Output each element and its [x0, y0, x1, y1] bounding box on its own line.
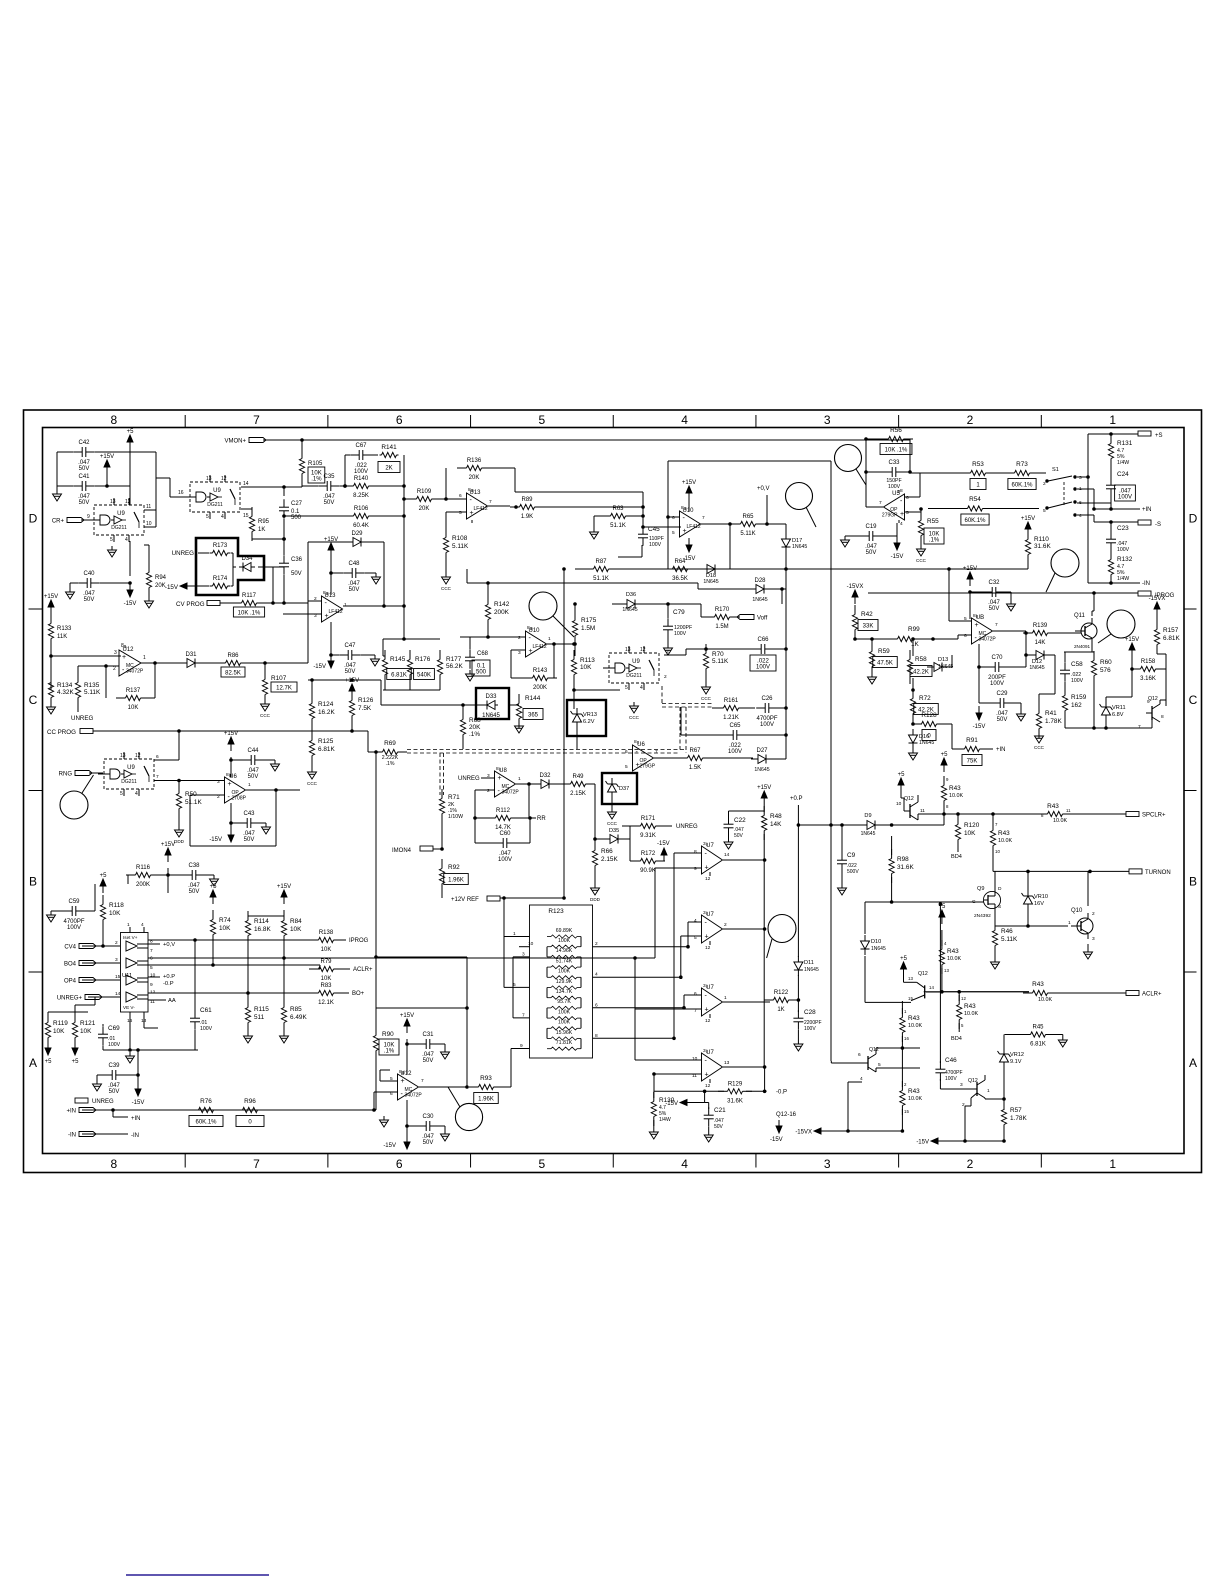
svg-text:4: 4 — [595, 972, 598, 978]
label R91 — [966, 737, 978, 744]
wire x — [380, 1069, 390, 1071]
svg-text:5: 5 — [110, 537, 113, 543]
svg-text:2.15K: 2.15K — [570, 791, 586, 797]
R123 link — [580, 1018, 582, 1028]
transistor Q11 — [1075, 618, 1097, 644]
resistor R94 — [146, 563, 166, 597]
wire collector to VR12 — [985, 1098, 1004, 1100]
svg-text:100V: 100V — [354, 469, 368, 475]
svg-text:2: 2 — [967, 1157, 974, 1171]
svg-text:R89: R89 — [521, 497, 533, 503]
node junction — [865, 471, 868, 474]
label D18 — [703, 573, 718, 585]
wire x — [1039, 693, 1055, 695]
resistor R170 — [705, 607, 739, 630]
wire x — [630, 860, 637, 862]
wire C41 right — [95, 485, 130, 487]
svg-text:Q12: Q12 — [904, 796, 914, 802]
wire x — [797, 975, 799, 1000]
wire pin10 — [144, 526, 156, 528]
R123 pin 7 stub — [513, 1012, 530, 1018]
resistor R110 — [1025, 530, 1030, 564]
svg-text:3: 3 — [518, 650, 521, 656]
wire R121 top — [74, 1005, 76, 1019]
wire VR11 top — [1105, 697, 1107, 702]
wire mid vertical x467 — [466, 957, 468, 1086]
svg-text:-: - — [705, 851, 708, 858]
label R71 vals — [448, 802, 463, 820]
node junction — [830, 824, 833, 827]
wire left vert — [1131, 657, 1133, 697]
border inner frame — [43, 428, 1185, 1154]
svg-text:1N645: 1N645 — [622, 607, 637, 613]
svg-text:LF412: LF412 — [533, 644, 547, 650]
svg-text:500: 500 — [476, 670, 487, 676]
node junction — [847, 1130, 850, 1133]
capacitor C45 — [638, 526, 648, 546]
node junction — [275, 789, 278, 792]
svg-text:DG211: DG211 — [207, 502, 223, 508]
pin marks R43c — [1041, 808, 1071, 818]
label 51.74K — [556, 958, 573, 964]
svg-text:50V: 50V — [79, 466, 90, 472]
wire U7a pin8 vertical — [673, 853, 675, 1038]
wire Q10 emitter — [1087, 944, 1089, 948]
svg-text:4: 4 — [681, 413, 688, 427]
grid label C left — [29, 693, 38, 707]
svg-text:+: + — [498, 775, 502, 782]
wire rail pin6 — [148, 957, 655, 959]
wire pin6 stub — [905, 496, 920, 498]
svg-text:8: 8 — [399, 1069, 402, 1075]
R123 pin 10 stub — [519, 941, 534, 947]
ground C38 — [210, 875, 219, 886]
switch S1 link dashed — [1063, 482, 1065, 505]
wire pin11 wire — [654, 1073, 701, 1075]
svg-text:31.6K: 31.6K — [897, 864, 914, 871]
svg-text:50V: 50V — [79, 500, 90, 506]
node junction — [969, 591, 972, 594]
IC U11 pins top — [127, 922, 144, 933]
svg-text:R43: R43 — [908, 1015, 920, 1022]
wire x — [719, 568, 730, 570]
resistor R89 — [510, 497, 544, 520]
svg-text:3: 3 — [114, 650, 117, 656]
node junction — [785, 648, 788, 651]
bold box D33 — [476, 688, 509, 719]
svg-text:U12: U12 — [122, 647, 134, 653]
node junction — [283, 538, 286, 541]
svg-text:5: 5 — [906, 510, 909, 516]
R123 pin 6 stub — [593, 1002, 685, 1008]
grid tick left — [29, 790, 43, 792]
svg-text:D11: D11 — [804, 960, 814, 966]
R123 link — [546, 947, 548, 957]
svg-text:1: 1 — [127, 922, 130, 928]
capacitor C67 — [350, 443, 372, 475]
label C22 vals — [734, 827, 744, 839]
wire IMON4 wire — [433, 848, 442, 850]
wire x — [97, 1074, 105, 1076]
resistor R106 — [344, 506, 378, 529]
svg-text:1N645: 1N645 — [1029, 665, 1044, 671]
capacitor C26 — [756, 696, 778, 728]
label -O.P out — [163, 981, 174, 987]
wire D34 out — [258, 566, 273, 568]
net flag UNREG sym — [75, 1098, 88, 1103]
wire x — [485, 467, 515, 469]
wire U6a out right — [276, 789, 300, 791]
node junction — [264, 662, 267, 665]
wire rail to R83 — [248, 992, 315, 994]
svg-text:100K: 100K — [558, 938, 571, 944]
wire R60 bottom — [1093, 679, 1095, 728]
svg-text:C70: C70 — [991, 655, 1003, 661]
svg-text:+15V: +15V — [1125, 637, 1139, 643]
net flag CV PROG sym — [207, 601, 220, 606]
wire D12 right drop — [1054, 655, 1056, 694]
power +15V R126 — [345, 678, 359, 698]
svg-text:5.11K: 5.11K — [1001, 936, 1018, 943]
node junction — [528, 783, 531, 786]
svg-text:3: 3 — [960, 1082, 963, 1088]
wire x — [797, 1030, 799, 1040]
power +5 R43d — [938, 904, 946, 924]
wire D29 right — [365, 541, 384, 543]
wire jog — [957, 635, 959, 639]
node junction — [574, 643, 577, 646]
svg-text:-: - — [705, 920, 708, 927]
wire left drop — [56, 452, 58, 490]
pin marks R43g — [904, 1009, 909, 1041]
svg-text:1: 1 — [518, 776, 521, 782]
node junction — [854, 638, 857, 641]
wire x — [439, 678, 441, 690]
wire U7b out — [723, 928, 765, 930]
node junction — [283, 602, 286, 605]
svg-text:UNREG: UNREG — [71, 715, 94, 722]
svg-text:Q9: Q9 — [977, 886, 984, 892]
svg-text:TURNON: TURNON — [1145, 870, 1171, 876]
svg-text:2: 2 — [904, 1082, 907, 1087]
pin labels U6a — [217, 772, 251, 800]
wire pin6 wire — [684, 994, 701, 996]
resistor R108 — [443, 528, 448, 562]
label — [53, 1028, 65, 1035]
wire drop — [781, 589, 783, 604]
wire wire to R43a top area — [892, 824, 944, 826]
wire -15V into box — [198, 585, 209, 587]
svg-text:OP4: OP4 — [64, 979, 77, 985]
svg-text:UNREG: UNREG — [458, 776, 480, 782]
label R115 — [254, 1006, 269, 1013]
wire x — [880, 535, 897, 537]
resistor R117 — [232, 593, 266, 617]
svg-text:+IN: +IN — [996, 747, 1006, 753]
label R66 — [601, 848, 613, 855]
label D16 — [919, 734, 934, 746]
ground under R144 — [515, 722, 524, 733]
ground under R125 — [307, 768, 318, 786]
svg-text:+: + — [705, 1072, 709, 1079]
resistor R71 — [439, 789, 444, 823]
wire to +S — [1087, 434, 1089, 477]
op-amp U5 — [882, 491, 905, 520]
svg-text:8.25K: 8.25K — [353, 493, 369, 499]
wire x — [514, 817, 530, 819]
svg-text:3: 3 — [824, 1157, 831, 1171]
label R113 — [580, 657, 595, 664]
resistor R128 — [912, 721, 946, 726]
label D10 — [871, 939, 886, 952]
wire pin10 wire — [635, 1059, 701, 1061]
value box R144 — [523, 709, 543, 720]
resistor R92 — [439, 859, 444, 893]
label 100K — [558, 969, 571, 975]
label — [290, 926, 302, 933]
capacitor C31 — [417, 1032, 439, 1064]
svg-text:+15V: +15V — [345, 678, 359, 684]
svg-text:D28: D28 — [754, 578, 766, 584]
node junction — [272, 602, 275, 605]
svg-text:9.31K: 9.31K — [640, 833, 656, 839]
value box C68 — [472, 660, 490, 676]
svg-text:VR12: VR12 — [1010, 1052, 1024, 1058]
svg-text:16.2K: 16.2K — [318, 709, 335, 716]
svg-text:R84: R84 — [290, 918, 302, 925]
IC U11 pins bottom — [127, 1012, 147, 1024]
wire x — [1033, 472, 1046, 474]
node junction — [673, 1037, 676, 1040]
diode D34 — [239, 556, 255, 572]
svg-text:S1: S1 — [1052, 467, 1059, 473]
label R125 — [318, 738, 334, 745]
wire UNREG+ wire — [88, 996, 120, 998]
svg-text:1.78K: 1.78K — [1010, 1115, 1027, 1122]
wire x — [94, 997, 96, 1005]
svg-text:R145: R145 — [390, 656, 406, 663]
node junction — [978, 666, 981, 669]
wire R42 bottom — [854, 633, 856, 639]
label R70 — [712, 651, 724, 658]
wire pin2 wire — [475, 789, 495, 791]
wire wire left — [618, 556, 642, 558]
svg-text:D37: D37 — [619, 786, 629, 792]
label C9 vals — [847, 863, 859, 875]
grid tick top — [612, 415, 614, 428]
label IPROG — [349, 938, 369, 944]
svg-text:R177: R177 — [446, 656, 462, 663]
label 100K — [558, 1009, 571, 1015]
op-amp U10b — [680, 508, 701, 537]
capacitor C41 — [73, 474, 95, 506]
svg-text:IPROG: IPROG — [349, 938, 369, 944]
resistor R96 — [233, 1107, 267, 1112]
R123 pin 3 stub — [513, 951, 530, 957]
svg-text:-0.P: -0.P — [776, 1090, 787, 1096]
R123 pin 4 stub — [593, 972, 681, 978]
pin marks R43d — [944, 941, 949, 973]
label UNREG — [172, 550, 195, 557]
grid label 7 bottom — [253, 1157, 260, 1171]
svg-text:10.0K: 10.0K — [1053, 818, 1067, 824]
svg-text:D: D — [998, 886, 1002, 892]
wire x — [907, 438, 910, 440]
wire x — [154, 874, 168, 876]
svg-text:8: 8 — [121, 643, 124, 649]
svg-text:U9: U9 — [632, 659, 640, 665]
node junction — [403, 638, 406, 641]
resistor R76 — [189, 1107, 223, 1112]
svg-text:VR13: VR13 — [583, 712, 597, 718]
grid label 3 top — [824, 413, 831, 427]
svg-text:2708P: 2708P — [232, 796, 247, 802]
svg-text:3: 3 — [703, 1048, 706, 1054]
wire +IN wire — [1094, 508, 1140, 510]
svg-text:R60: R60 — [1100, 659, 1112, 666]
power +15V U13b — [324, 537, 338, 557]
wire x — [630, 825, 637, 827]
wire x — [383, 655, 385, 657]
svg-text:-15V: -15V — [165, 584, 179, 591]
svg-text:4: 4 — [944, 941, 947, 946]
wire jog — [700, 604, 702, 617]
capacitor C21 — [704, 1107, 714, 1127]
grid label B left — [29, 874, 37, 888]
wire x — [475, 842, 496, 844]
capacitor C79 — [663, 618, 673, 638]
label R128 — [921, 712, 937, 719]
resistor R119 — [45, 1013, 50, 1047]
svg-text:LF412: LF412 — [687, 524, 701, 530]
resistor R123 element 9 — [547, 1017, 581, 1020]
wire BO4 wire — [82, 962, 120, 964]
wire U5 out vertical — [865, 439, 867, 507]
dashed guard link — [662, 686, 712, 753]
label CV PROG — [176, 601, 205, 608]
power +5 under R121 — [72, 1041, 80, 1065]
svg-text:7: 7 — [156, 774, 159, 780]
label R43 — [908, 1015, 920, 1022]
wire x — [1026, 632, 1029, 634]
ground U9d — [629, 702, 640, 720]
svg-text:R172: R172 — [641, 851, 656, 857]
wire S1-3 wire — [1077, 476, 1088, 478]
label R43 — [908, 1088, 920, 1095]
svg-text:-: - — [705, 993, 708, 1000]
wire x — [137, 1075, 139, 1082]
wire rail pin12 — [148, 992, 248, 994]
label — [469, 724, 481, 731]
grid label B right — [1189, 874, 1197, 888]
label R96 — [244, 1098, 256, 1105]
label D27 val — [754, 767, 769, 773]
svg-text:DDD: DDD — [590, 897, 601, 902]
grid tick top — [327, 415, 329, 428]
resistor R87 — [584, 559, 618, 582]
svg-text:15: 15 — [243, 513, 249, 519]
svg-text:4: 4 — [125, 537, 128, 543]
wire rail y569 — [730, 568, 831, 570]
svg-text:50V: 50V — [997, 717, 1008, 723]
label — [649, 542, 662, 548]
wire R119 top — [47, 1012, 49, 1019]
analog switch U9c DG211 — [98, 752, 154, 797]
pin1 — [143, 655, 146, 661]
svg-text:6.81K: 6.81K — [318, 746, 335, 753]
svg-text:5: 5 — [459, 510, 462, 516]
label — [964, 830, 976, 837]
svg-text:2: 2 — [115, 940, 118, 946]
label R43 — [949, 785, 961, 792]
ground C31 — [441, 1048, 450, 1059]
resistor R112 — [486, 808, 520, 831]
wire R114 top wire — [248, 915, 284, 917]
capacitor C47 — [339, 643, 361, 675]
svg-text:4.32K: 4.32K — [57, 689, 74, 696]
op-amp U7a — [702, 843, 723, 874]
svg-text:7: 7 — [522, 1012, 525, 1018]
resistor R116 — [126, 865, 160, 888]
svg-text:6.81K: 6.81K — [1163, 635, 1180, 642]
svg-text:DDD: DDD — [174, 839, 185, 844]
wire x — [918, 813, 930, 815]
svg-text:R56: R56 — [890, 427, 902, 434]
wire to C35 — [302, 485, 318, 487]
svg-text:90.9K: 90.9K — [640, 868, 656, 874]
wire D10 bottom — [864, 956, 866, 1002]
grid label A right — [1189, 1056, 1197, 1070]
svg-text:13: 13 — [120, 753, 126, 759]
wire x — [123, 1074, 138, 1076]
resistor R129 — [718, 1081, 752, 1104]
wire C59 right up — [94, 884, 96, 911]
wire x — [160, 999, 166, 1001]
callout circle U12b — [455, 1103, 482, 1130]
svg-text:7: 7 — [150, 948, 153, 954]
label R71 — [448, 794, 460, 801]
svg-text:-15V: -15V — [665, 1101, 678, 1107]
label C69 vals — [108, 1036, 121, 1048]
label — [57, 689, 74, 696]
svg-text:7: 7 — [995, 822, 998, 827]
svg-text:8: 8 — [527, 625, 530, 631]
svg-text:5: 5 — [625, 764, 628, 770]
svg-text:R43: R43 — [1047, 803, 1059, 810]
svg-text:+15V: +15V — [963, 566, 977, 572]
svg-text:+5: +5 — [210, 884, 218, 890]
wire x — [705, 649, 707, 650]
resistor R54 — [958, 506, 992, 511]
wire pin6 wire — [668, 516, 679, 518]
svg-text:1N645: 1N645 — [861, 831, 876, 837]
wire ACLR rail right — [1051, 992, 1126, 994]
R123 link — [580, 998, 582, 1008]
ground under C40 — [66, 588, 75, 599]
analog switch U9d DG211 — [603, 646, 659, 691]
svg-text:50V: 50V — [866, 550, 877, 556]
pin 16 — [178, 490, 184, 496]
svg-text:-15V: -15V — [209, 837, 222, 843]
wire R108 bottom — [445, 556, 447, 573]
resistor R73 — [1005, 470, 1039, 475]
label C79 — [673, 609, 685, 616]
wire x — [441, 794, 443, 796]
svg-text:540K: 540K — [417, 673, 431, 679]
x — [971, 1093, 977, 1106]
svg-text:10K: 10K — [128, 705, 139, 711]
wire x — [653, 1120, 655, 1128]
